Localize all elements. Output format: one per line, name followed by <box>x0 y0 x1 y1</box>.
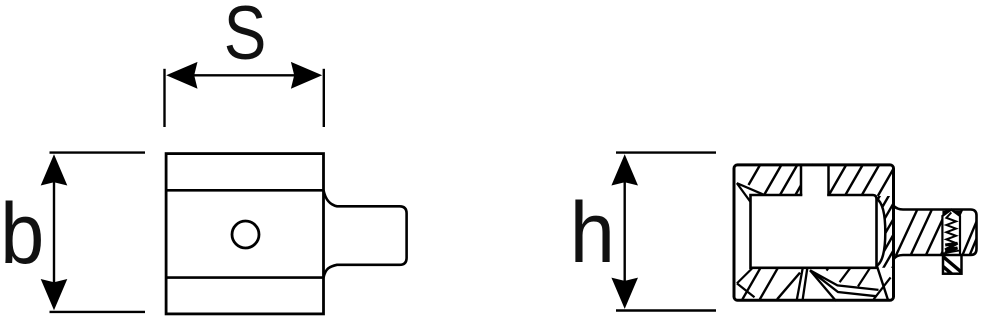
svg-text:h: h <box>570 184 615 281</box>
svg-text:b: b <box>0 185 44 282</box>
svg-text:S: S <box>224 0 267 75</box>
